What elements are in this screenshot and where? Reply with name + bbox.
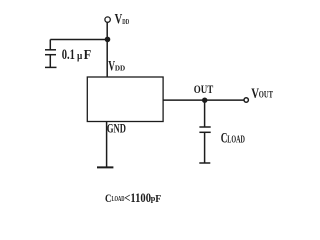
wire IC GND pin down — [106, 122, 108, 168]
wire junction down to IC VDD pin — [106, 40, 108, 78]
svg-text:DD: DD — [115, 63, 126, 72]
svg-text:F: F — [155, 194, 161, 205]
svg-text:GND: GND — [107, 122, 126, 136]
wire junction to bypass capacitor — [50, 39, 107, 41]
wire OUT pin to VOUT terminal — [163, 99, 244, 101]
svg-text:OUT: OUT — [194, 83, 214, 96]
capacitor CLOAD — [199, 100, 210, 163]
svg-text:OUT: OUT — [259, 89, 273, 99]
terminal VDD (open circle) — [105, 17, 110, 22]
svg-text:DD: DD — [122, 17, 129, 26]
svg-text:F: F — [84, 47, 92, 62]
caption CLOAD<1100pF — [105, 191, 161, 205]
op-amp / regulator U1 (body) — [87, 77, 163, 122]
wire VDD terminal to junction — [106, 22, 108, 39]
junction node B — [202, 98, 207, 103]
ground (GND bar) — [97, 166, 113, 168]
junction node A — [105, 37, 111, 43]
svg-text:<1100: <1100 — [124, 191, 151, 205]
svg-text:0.1: 0.1 — [62, 47, 75, 63]
svg-text:µ: µ — [77, 50, 83, 62]
svg-text:LOAD: LOAD — [112, 195, 125, 203]
capacitor C1 0.1uF — [45, 40, 57, 68]
terminal VOUT (open circle) — [244, 98, 248, 102]
svg-text:LOAD: LOAD — [227, 134, 245, 145]
